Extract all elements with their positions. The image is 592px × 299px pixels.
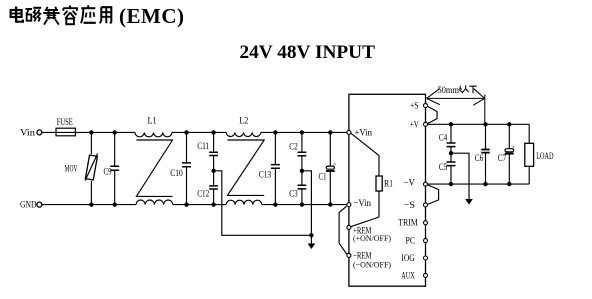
capacitor C10 (182, 132, 191, 204)
pin -REM (347, 253, 351, 257)
svg-text:(+ON/OFF): (+ON/OFF) (353, 233, 391, 243)
pin -Vin (347, 203, 351, 207)
power module body (349, 94, 426, 286)
capacitor C11 (209, 132, 218, 170)
svg-text:R1: R1 (384, 180, 393, 190)
wire: C4/C5 midpoint to output ground (451, 153, 469, 199)
pin -V (424, 182, 428, 186)
svg-text:C12: C12 (197, 189, 209, 199)
svg-text:PC: PC (406, 236, 416, 246)
wire: -Vin to -REM external loop (339, 206, 347, 254)
svg-text:FUSE: FUSE (57, 118, 73, 128)
svg-text:Vin: Vin (20, 128, 35, 138)
svg-text:C10: C10 (170, 169, 183, 179)
svg-text:GND: GND (20, 201, 37, 211)
wire: -V to -S sense loop (428, 185, 439, 205)
output ground arrow (465, 199, 473, 205)
svg-text:C11: C11 (197, 142, 209, 152)
pin PC (424, 239, 428, 243)
svg-text:+V: +V (410, 120, 419, 130)
pin AUX (424, 273, 428, 277)
junction dots on rails (89, 130, 332, 207)
capacitor C13 (271, 132, 280, 204)
wire: C2/C3 midpoint to chassis ground (302, 171, 312, 236)
svg-text:C1: C1 (319, 173, 327, 183)
磁 (26, 8, 33, 10)
fuse FUSE (56, 128, 75, 136)
pin IOG (424, 256, 428, 260)
svg-text:LOAD: LOAD (536, 152, 553, 162)
wire: top rail Vin to module (42, 131, 349, 133)
electrolytic capacitor C1 (326, 132, 336, 204)
电 (15, 7, 17, 21)
capacitor C12 (209, 171, 218, 205)
junction: ground node (309, 233, 313, 237)
dimension 50mm以下 (427, 89, 485, 125)
svg-text:C6: C6 (475, 154, 484, 164)
svg-text:−V: −V (404, 178, 416, 188)
svg-text:C13: C13 (259, 170, 272, 180)
-V rail (428, 183, 530, 185)
用 (101, 7, 111, 23)
svg-text:+Vin: +Vin (355, 128, 373, 138)
svg-text:C7: C7 (498, 154, 507, 164)
capacitor C3 (298, 171, 307, 205)
resistor R1 (351, 133, 382, 227)
common-mode choke L2 (226, 132, 264, 204)
svg-text:−S: −S (404, 201, 416, 211)
common-mode choke L1 (135, 132, 173, 204)
wire: bottom rail GND to module (42, 204, 347, 206)
varistor MOV (85, 132, 97, 204)
以下 glyphs (460, 85, 477, 93)
title 电磁兼容应用（EMC） (11, 5, 112, 24)
svg-text:50mm: 50mm (438, 86, 460, 96)
terminal Vin (37, 130, 42, 135)
svg-text:−Vin: −Vin (354, 199, 372, 209)
svg-text:IOG: IOG (401, 254, 415, 264)
wire: +S to +V sense loop (428, 106, 438, 123)
pin -S (424, 203, 428, 207)
wire: C11/C12 midpoint to chassis ground (214, 171, 312, 236)
pin +Vin (347, 130, 351, 134)
兼 (46, 7, 56, 10)
+V rail (428, 123, 530, 125)
svg-text:TRIM: TRIM (398, 218, 418, 228)
容 (69, 6, 71, 9)
pin TRIM (424, 221, 428, 225)
svg-text:L2: L2 (239, 116, 248, 126)
svg-text:C9: C9 (104, 168, 112, 178)
svg-text:C4: C4 (439, 133, 448, 143)
resistor LOAD (525, 124, 534, 184)
capacitor C4 (447, 124, 456, 153)
svg-text:C3: C3 (289, 190, 298, 200)
capacitor C6 (481, 124, 489, 184)
pin +S (424, 104, 428, 108)
capacitor C5 (447, 153, 456, 184)
terminal GND (37, 202, 42, 207)
pin +V (424, 122, 428, 126)
svg-text:L1: L1 (148, 117, 157, 127)
electrolytic capacitor C7 (505, 124, 515, 184)
junction: C4/C5 midpoint (449, 151, 453, 155)
capacitor C9 (110, 132, 119, 204)
应 (87, 5, 89, 8)
capacitor C2 (298, 132, 307, 170)
pin +REM (347, 225, 351, 229)
svg-text:C2: C2 (289, 142, 298, 152)
svg-text:AUX: AUX (401, 272, 415, 282)
svg-text:(EMC): (EMC) (119, 4, 184, 28)
svg-text:+S: +S (410, 102, 419, 112)
svg-text:C5: C5 (439, 163, 448, 173)
junction dots on output rails (449, 122, 512, 186)
chassis ground arrow (308, 235, 316, 249)
svg-text:(−ON/OFF): (−ON/OFF) (353, 259, 391, 269)
svg-text:MOV: MOV (65, 165, 78, 175)
svg-text:24V 48V INPUT: 24V 48V INPUT (240, 42, 376, 63)
